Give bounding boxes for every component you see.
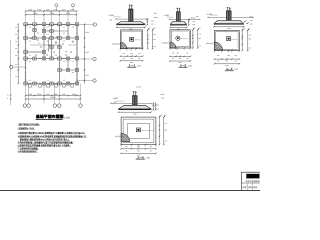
detail J-1 plan: plan bottom extension ticks [120, 48, 122, 50]
svg-text:J—4: J—4 [137, 155, 144, 159]
title block black name bar [246, 174, 259, 179]
svg-text:150: 150 [15, 54, 18, 57]
floor plan internal wall v5 [67, 24, 69, 38]
svg-text:350: 350 [227, 54, 230, 57]
detail J-4 plan: plan right dim line 2 [163, 117, 165, 145]
svg-text:JL1: JL1 [72, 71, 75, 74]
detail J-3 plan: plan right dim line 2 [247, 30, 249, 50]
detail J-2 section: ground line left [169, 18, 177, 20]
floor plan axis leader to top-right circle [77, 23, 94, 25]
detail J-1 plan: footing plan step line 1 [122, 31, 142, 47]
detail J-4 section: left annotation leader [115, 100, 124, 102]
svg-text:3.地基承载力特征值fak=150kPa,基础垫层为C10素: 3.地基承载力特征值fak=150kPa,基础垫层为C10素砼厚100,基底进入… [18, 131, 87, 135]
floor plan left axis circle [13, 66, 26, 68]
svg-text:700: 700 [186, 57, 189, 60]
detail J-1 section: left annotation leader [113, 16, 121, 18]
detail J-4 plan: footing plan outer edge [121, 117, 156, 145]
svg-text:200: 200 [156, 107, 159, 110]
detail J-1 plan: plan right dim line 2 [152, 30, 154, 49]
detail J-2: bottom overall dim chain 2 [170, 60, 190, 62]
detail J-3: bottom dim chain 1 [215, 58, 240, 60]
detail J-2 section: right dim of slab [188, 19, 190, 25]
detail J-1 section: slab bottom rebar with hooks [117, 23, 144, 25]
svg-text:700: 700 [165, 140, 168, 143]
detail J-4: title underline [136, 158, 145, 160]
title block cell divider 2 [252, 183, 254, 190]
svg-text:2700: 2700 [54, 8, 58, 11]
detail J-2: bottom dim chain 1 [170, 55, 190, 57]
svg-text:24: 24 [7, 93, 9, 96]
detail J-2 section: ground line right [180, 18, 200, 20]
svg-text:3300: 3300 [54, 93, 58, 96]
svg-text:J-2: J-2 [29, 40, 31, 43]
detail J-3 section: slab bottom rebar with hooks [215, 23, 243, 25]
floor plan top dimension chain row 2 [26, 14, 77, 16]
floor plan left axis line [10, 40, 12, 105]
detail J-3: title underline [225, 70, 234, 72]
detail J-1: title underline [127, 66, 136, 68]
svg-text:J-3: J-3 [38, 42, 40, 45]
svg-text:1800: 1800 [133, 113, 137, 116]
svg-text:200: 200 [250, 22, 253, 25]
detail J-4 plan: plan right dim line 1 [158, 117, 160, 145]
svg-text:结施: 结施 [253, 186, 257, 189]
svg-text:审定: 审定 [243, 186, 247, 189]
svg-text:700: 700 [217, 60, 220, 63]
svg-text:JL2: JL2 [37, 32, 40, 35]
svg-text:700: 700 [199, 44, 202, 47]
floor plan outer wall top [26, 23, 78, 25]
detail J-1: bottom overall dim chain 2 [121, 60, 143, 62]
detail J-1 section: ground line left [115, 18, 129, 20]
svg-text:J-2: J-2 [63, 79, 65, 82]
svg-text:JL2: JL2 [55, 42, 58, 45]
svg-text:J-1: J-1 [47, 79, 49, 82]
svg-text:3300: 3300 [46, 8, 50, 11]
svg-text:3300: 3300 [85, 74, 89, 77]
floor plan internal wall v1 [34, 24, 36, 38]
detail J-2 section: footing slab section [170, 21, 186, 25]
svg-text:Φ10@150: Φ10@150 [112, 42, 120, 45]
floor plan internal wall h4 partial [60, 69, 78, 71]
svg-text:8.未尽事宜按规范执行。: 8.未尽事宜按规范执行。 [18, 149, 39, 153]
detail J-1 section: right dim of slab [146, 19, 148, 25]
svg-text:3300: 3300 [28, 8, 32, 11]
detail J-4 section: ground line left [110, 102, 133, 104]
svg-text:2Φ12: 2Φ12 [154, 16, 158, 19]
detail J-1 section: rebar dowels [129, 5, 131, 10]
svg-text:J-2: J-2 [47, 26, 49, 29]
detail J-2: title underline [179, 66, 188, 68]
detail J-2 section: column section hatched [176, 12, 180, 22]
detail J-1 plan: plan right dim line 1 [147, 30, 149, 49]
svg-text:150: 150 [15, 47, 18, 50]
detail J-4 section right dim [154, 103, 156, 109]
svg-text:350: 350 [226, 60, 229, 63]
floor plan beam tick marks [28, 23, 30, 25]
svg-text:J-1: J-1 [29, 54, 31, 57]
detail J-2 section: slab bottom rebar with hooks [171, 23, 186, 25]
svg-text:35d: 35d [162, 97, 165, 100]
detail J-1 section bottom dim [117, 26, 145, 28]
svg-text:2700: 2700 [37, 8, 41, 11]
detail J-1 plan: leader from column to right [134, 39, 141, 41]
detail J-1 section: ground line right [133, 18, 149, 20]
floor plan internal wall v3 [51, 24, 53, 58]
svg-text:-1.500: -1.500 [164, 14, 169, 17]
svg-text:-1.500: -1.500 [108, 14, 113, 17]
svg-text:700: 700 [138, 57, 141, 60]
svg-text:200: 200 [193, 23, 196, 26]
detail J-2 plan: plan bottom extension ticks [169, 47, 171, 49]
svg-text:J—2: J—2 [180, 63, 187, 67]
detail J-2 section bottom dim [170, 26, 186, 28]
svg-text:300: 300 [193, 20, 196, 23]
plan title underline [36, 119, 63, 121]
floor plan bottom dimension chain row 2 [26, 98, 81, 100]
detail J-2 plan: corner rebar hatch quarter-disc [170, 42, 176, 48]
detail J-2 plan: leader from column to right [180, 38, 188, 40]
svg-text:3300: 3300 [72, 93, 76, 96]
svg-text:Φ10@150: Φ10@150 [161, 41, 169, 44]
svg-text:J-2: J-2 [29, 79, 31, 82]
detail J-2 section: rebar dowels [176, 8, 178, 13]
floor plan footing pads [24, 23, 27, 26]
detail J-2 plan: hatch leader text [170, 43, 171, 45]
detail J-3: bottom overall dim chain 2 [215, 63, 240, 65]
svg-text:J-1: J-1 [29, 26, 31, 29]
detail J-3 section: column section hatched [226, 11, 231, 20]
detail J-4 section: footing slab section [119, 105, 151, 109]
detail J-3 plan: hatch leader text [215, 43, 216, 46]
floor plan internal wall v5b [67, 59, 69, 71]
detail J-3 section: footing slab section [214, 20, 244, 24]
floor plan bottom footing stubs [29, 85, 32, 88]
floor plan internal wall v2 [43, 24, 45, 58]
svg-text:700: 700 [234, 54, 237, 57]
detail J-2 section: left annotation leader [167, 16, 173, 18]
svg-text:700: 700 [249, 34, 252, 37]
svg-text:J-4: J-4 [47, 48, 49, 51]
detail J-2 plan: round column in plan [176, 36, 180, 40]
detail J-1 plan: footing plan outer edge [121, 30, 143, 49]
svg-text:1:30: 1:30 [188, 64, 192, 67]
floor plan top-right axis circle [93, 23, 96, 26]
floor plan right axis circle bottom [77, 80, 93, 82]
svg-text:-1.800: -1.800 [112, 97, 117, 100]
detail J-4 plan: hatch leader text [123, 136, 124, 137]
svg-text:JL1: JL1 [65, 50, 68, 53]
svg-text:350: 350 [153, 38, 156, 41]
svg-text:35d: 35d [154, 12, 157, 15]
detail J-3 plan: leader from column to right [231, 38, 238, 40]
floor plan bottom extension lines [25, 84, 27, 104]
svg-text:JL1: JL1 [47, 40, 50, 43]
svg-text:2700: 2700 [70, 8, 74, 11]
detail J-4 section: right dim of slab [152, 103, 154, 109]
svg-text:700: 700 [186, 51, 189, 54]
svg-text:J-3: J-3 [63, 60, 65, 63]
svg-text:700: 700 [153, 45, 156, 48]
detail J-3 section: ground line left [207, 16, 226, 18]
svg-text:700: 700 [199, 33, 202, 36]
detail J-4 plan: footing plan step line 1 [123, 119, 154, 143]
svg-text:Φ12@140: Φ12@140 [115, 135, 123, 138]
svg-text:100: 100 [110, 19, 113, 22]
detail J-3 plan: plan bottom extension ticks [214, 50, 216, 52]
svg-text:2700: 2700 [62, 93, 66, 96]
detail J-1 section: column section hatched [129, 9, 133, 21]
floor plan internal wall h5 partial top [44, 30, 60, 32]
detail J-3 plan: footing plan step line 1 [216, 32, 238, 50]
detail J-2 plan: footing plan step line 1 [171, 31, 189, 47]
detail J-3 plan: plan right dim line 1 [241, 30, 243, 50]
detail J-1: bottom dim chain 1 [121, 55, 143, 57]
svg-text:300: 300 [250, 19, 253, 22]
floor plan right vertical dim line [84, 24, 86, 83]
svg-text:150: 150 [15, 75, 18, 78]
floor plan top axis circles [55, 4, 58, 7]
svg-text:J-1: J-1 [63, 26, 65, 29]
svg-text:350: 350 [179, 57, 182, 60]
detail J-4 plan: footing plan step line 2 [128, 124, 150, 139]
svg-text:JL1: JL1 [29, 60, 32, 63]
svg-text:700: 700 [123, 57, 126, 60]
svg-text:700: 700 [153, 33, 156, 36]
floor plan top dimension chain row 1 [26, 10, 77, 12]
detail J-3 section bottom dim [214, 26, 244, 28]
detail J-2 ground break marks right [190, 19, 192, 20]
svg-text:-1.500: -1.500 [207, 13, 212, 16]
floor plan extra partial walls for texture [44, 44, 60, 46]
svg-text:1500: 1500 [227, 27, 231, 30]
svg-text:Φ10@150: Φ10@150 [206, 42, 214, 45]
detail J-4 plan: leader from column to right [141, 130, 154, 132]
svg-text:1:30: 1:30 [137, 64, 141, 67]
svg-text:J-4: J-4 [63, 32, 65, 35]
svg-text:350: 350 [130, 52, 133, 55]
floor plan internal wall h2 [26, 58, 78, 60]
svg-text:基础平面布置图: 基础平面布置图 [35, 114, 64, 119]
detail J-2 plan: plan right dim line 2 [197, 30, 199, 48]
svg-text:700: 700 [249, 47, 252, 50]
svg-text:350: 350 [137, 149, 140, 152]
floor plan internal wall h1 [26, 37, 78, 39]
floor plan internal wall h3 partial [26, 51, 45, 53]
detail J-1 plan: hatch leader text [121, 44, 122, 46]
detail J-4 section: column section hatched [133, 96, 138, 106]
svg-text:150: 150 [15, 40, 18, 43]
svg-text:200: 200 [151, 23, 154, 26]
floor plan internal wall v4 [59, 24, 61, 83]
detail J-4 section: ground line right [137, 102, 152, 104]
svg-text:2Φ12: 2Φ12 [161, 93, 165, 96]
detail J-3 section: rebar dowels [227, 7, 229, 12]
detail J-4 section: slab bottom rebar with hooks [119, 108, 150, 110]
detail J-2 plan: plan right dim line 1 [192, 30, 194, 48]
title block left border [240, 172, 242, 190]
svg-text:700: 700 [165, 122, 168, 125]
detail J-3 plan: footing plan outer edge [215, 30, 240, 50]
svg-text:150: 150 [15, 26, 18, 29]
svg-text:J-1: J-1 [72, 40, 74, 43]
svg-text:300: 300 [151, 19, 154, 22]
svg-text:35d: 35d [196, 15, 199, 18]
sheet bottom border line [0, 189, 260, 191]
svg-text:350: 350 [249, 37, 252, 40]
svg-text:700: 700 [125, 149, 128, 152]
svg-text:150: 150 [15, 63, 18, 66]
svg-text:8: 8 [7, 97, 8, 100]
svg-text:900: 900 [177, 28, 180, 31]
title block top border [241, 171, 260, 173]
svg-text:700: 700 [217, 54, 220, 57]
svg-text:700: 700 [138, 52, 141, 55]
floor plan mini tick texture [37, 39, 39, 41]
svg-text:J—1: J—1 [129, 63, 136, 67]
svg-text:3300: 3300 [62, 8, 66, 11]
svg-text:6000: 6000 [33, 12, 37, 15]
svg-text:1:30: 1:30 [146, 156, 150, 159]
floor plan outer wall bottom [26, 83, 78, 85]
svg-text:2Φ12: 2Φ12 [191, 17, 195, 20]
detail J-1 section: footing slab section [117, 22, 145, 25]
svg-text:J-2: J-2 [63, 40, 65, 43]
detail J-1 plan: column in plan [130, 37, 134, 41]
svg-text:750: 750 [125, 145, 128, 148]
detail J-3 right leader arrows [244, 20, 247, 22]
svg-text:150: 150 [15, 33, 18, 36]
svg-text:700: 700 [172, 57, 175, 60]
svg-text:1.本图尺寸除标高以米计外均以毫米计。: 1.本图尺寸除标高以米计外均以毫米计。 [18, 122, 41, 126]
detail J-4: bottom overall dim chain 2 [121, 152, 156, 154]
svg-text:700: 700 [149, 149, 152, 152]
title block middle rule [241, 182, 260, 184]
floor plan right axis circle mid [77, 58, 93, 60]
detail J-4 plan: corner rebar hatch quarter-disc [121, 133, 130, 142]
svg-text:3300: 3300 [37, 93, 41, 96]
svg-text:3600: 3600 [85, 51, 89, 54]
floor plan outer wall left [25, 24, 27, 83]
svg-text:3900: 3900 [85, 31, 89, 34]
svg-text:J-1: J-1 [72, 60, 74, 63]
svg-text:350: 350 [177, 51, 180, 54]
svg-text:2700: 2700 [46, 93, 50, 96]
svg-text:J-1: J-1 [47, 33, 49, 36]
floor plan outer wall right [76, 24, 78, 83]
svg-text:700: 700 [234, 60, 237, 63]
svg-text:350: 350 [165, 129, 168, 132]
floor plan bottom axis circles [23, 104, 27, 108]
detail J-1 plan: corner rebar hatch quarter-disc [121, 42, 127, 48]
detail J-3 plan: corner rebar hatch quarter-disc [215, 42, 223, 50]
floor plan left vertical dim line [17, 24, 19, 83]
detail J-3 section: left annotation leader [211, 14, 218, 16]
floor plan bottom dimension chain row 1 [26, 95, 81, 97]
svg-text:J-3: J-3 [72, 26, 74, 29]
detail J-4: bottom dim chain 1 [121, 148, 156, 150]
svg-text:J—3: J—3 [226, 67, 233, 71]
svg-text:15900: 15900 [51, 96, 56, 99]
detail J-4 section bottom dim [119, 111, 151, 113]
svg-text:图别: 图别 [248, 186, 252, 189]
svg-text:750: 750 [149, 145, 152, 148]
detail J-3 section: ground line right [231, 16, 254, 18]
svg-text:1:100: 1:100 [64, 116, 71, 119]
svg-text:±0.000: ±0.000 [136, 86, 141, 89]
detail J-4 section: rebar dowels [133, 91, 135, 96]
svg-text:某住宅楼基础图: 某住宅楼基础图 [246, 180, 260, 183]
detail J-2 plan: footing plan outer edge [170, 30, 190, 48]
detail J-4 plan: column in plan [136, 128, 140, 132]
detail J-4 plan: plan bottom extension ticks [120, 144, 122, 146]
svg-text:2.基础埋深为-1.50米。: 2.基础埋深为-1.50米。 [18, 127, 36, 131]
svg-text:300: 300 [156, 104, 159, 107]
floor plan top extension lines [25, 11, 27, 22]
title block cell divider 1 [247, 183, 249, 190]
svg-text:700: 700 [123, 52, 126, 55]
svg-text:350: 350 [199, 37, 202, 40]
svg-text:350: 350 [130, 57, 133, 60]
svg-text:J-2: J-2 [55, 54, 57, 57]
svg-text:2Φ14: 2Φ14 [249, 16, 253, 19]
svg-text:700: 700 [172, 51, 175, 54]
svg-text:1:30: 1:30 [234, 68, 238, 71]
svg-text:5400: 5400 [50, 12, 54, 15]
detail J-3 plan: column in plan [227, 37, 231, 41]
